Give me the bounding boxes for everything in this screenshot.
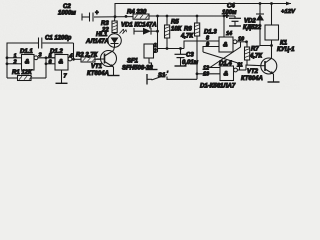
label R1 12K (12, 70, 33, 76)
label HL1 AL147A (85, 32, 109, 45)
gate D1.4 (220, 66, 237, 81)
gate D1.2 (55, 55, 72, 71)
capacitor C4 (225, 14, 241, 26)
node VD1 right (156, 15, 159, 52)
node pins 1-2 tie (6, 56, 9, 78)
wire pin 8 (184, 36, 219, 49)
pin 10 output wire (237, 37, 247, 43)
gate D1.1 (22, 55, 38, 71)
gate D1.3 (219, 37, 237, 52)
label C4 100u (222, 4, 237, 17)
label R4 330 (127, 10, 147, 16)
pin 2 wire (7, 60, 22, 66)
resistor R5 (165, 16, 170, 49)
ground C3 (175, 65, 187, 67)
node gate1-gate2 (45, 56, 48, 78)
switch S1 (147, 74, 197, 85)
label +12V (281, 9, 296, 15)
label VD2 KD522 (243, 19, 262, 32)
ground VT2 emitter (268, 81, 280, 83)
resistor R6 (195, 16, 200, 79)
node junction R3/rail (114, 15, 117, 18)
pin 14 wire (224, 16, 232, 37)
wire C1 right down to gate output node (73, 43, 75, 59)
label R3 22 (101, 21, 109, 34)
label R2 2.7K (76, 53, 99, 59)
relay K1 (265, 4, 279, 59)
diode VD2 (256, 4, 272, 46)
pin 13 wire (197, 72, 220, 78)
node R5 bottom (166, 47, 169, 50)
wire D1.4 output to VT2 base (246, 65, 262, 70)
pin 12 label (203, 66, 209, 72)
node junction VD1 top (125, 15, 128, 18)
node R5 top (166, 15, 169, 18)
capacitor C1 (39, 38, 74, 49)
wire main supply bus y16 (83, 16, 236, 17)
label R6 4.7K (180, 27, 194, 40)
transistor VT2 (261, 58, 277, 82)
label SF1 SFH506-38 (122, 59, 153, 72)
node C3 top (179, 47, 182, 50)
pin 1 wire (7, 54, 22, 60)
label VT1 KT604A (87, 64, 109, 77)
resistor R4 (133, 14, 149, 19)
node relay rail (270, 2, 273, 5)
capacitor C2 (82, 11, 99, 22)
wire +12V top rail (115, 4, 291, 17)
label D1 K561LA7 (200, 84, 236, 90)
label R7 4.7K (249, 47, 263, 60)
node VD2 rail (259, 2, 262, 5)
wire C1 top left (7, 43, 38, 58)
label D1.4 (219, 61, 232, 67)
node relay bottom / VD2 (270, 44, 273, 47)
label C3 0.01u (182, 53, 199, 67)
label C2 1000u (58, 4, 76, 17)
node R6 top (196, 15, 199, 18)
label R5 10K (171, 20, 183, 33)
label D1.1 (20, 49, 33, 55)
paper texture (0, 0, 1, 1)
zener VD1 (134, 28, 158, 35)
label VT2 KT604A (241, 69, 263, 82)
pin 5 wire (46, 54, 55, 60)
wire SF1 output node (158, 48, 185, 50)
wire pin 9 (203, 42, 219, 52)
pin 4 output wire (69, 54, 82, 60)
+12V arrow (286, 2, 291, 6)
wire cross-coupling A (203, 52, 240, 70)
capacitor C3 (175, 49, 187, 66)
pin 6 wire (46, 60, 55, 66)
resistor R7 (245, 42, 250, 65)
wire S1 to pin13 node (196, 74, 198, 80)
node output 10 (245, 40, 248, 43)
ground C4 (229, 25, 241, 27)
ground VT1 emitter (108, 75, 120, 77)
label S1 (158, 72, 169, 80)
resistor R3 (112, 16, 117, 33)
node pin 14 (223, 15, 226, 18)
resistor R2 (81, 57, 101, 62)
photoreceiver SF1 (144, 43, 158, 58)
resistor R1 (7, 76, 46, 81)
node output 4 / C1 (72, 58, 75, 61)
label C1 1200p (45, 36, 72, 42)
transistor VT1 (97, 47, 117, 75)
node pin 13 / R6 / S1 (196, 72, 199, 75)
ground SF1 (146, 58, 158, 70)
wire cross-coupling B (210, 42, 241, 68)
label D1.3 (204, 30, 217, 36)
label VD1 KS147A (121, 23, 157, 29)
pin 7 ground (56, 70, 68, 83)
pin 3 output wire (38, 53, 55, 59)
pin 11 output wire (237, 63, 246, 71)
label D1.2 (50, 49, 63, 55)
label K1 KUTs-1 (277, 41, 295, 54)
LED HL1 (108, 29, 127, 47)
